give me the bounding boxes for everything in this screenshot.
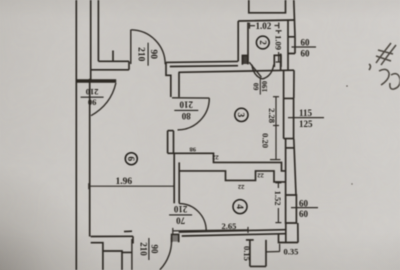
wall room2 left inner <box>247 23 249 65</box>
svg-text:210: 210 <box>173 204 187 214</box>
door D3 arc 70/210 <box>179 204 206 231</box>
window W3 room4 rect <box>286 195 297 223</box>
svg-text:2: 2 <box>258 40 268 45</box>
svg-text:1.96: 1.96 <box>116 177 133 187</box>
dim 2.65 room4 <box>173 230 248 231</box>
wall left inner vertical lower <box>89 79 91 237</box>
wall partition x98 <box>97 0 99 61</box>
svg-text:0.15: 0.15 <box>242 246 252 261</box>
wall right above window2 inner <box>283 70 285 98</box>
wall step right of room4 <box>279 234 299 243</box>
wall notch below window2 <box>286 147 294 149</box>
window W1 room2 rect <box>288 37 295 54</box>
wall top of room3 line2 <box>170 65 238 68</box>
svg-text:60: 60 <box>301 48 311 58</box>
door D6 entry arc <box>91 83 116 116</box>
svg-text:1.02: 1.02 <box>256 21 272 31</box>
dim 2.28 text <box>267 108 277 123</box>
svg-text:80: 80 <box>181 111 191 121</box>
wall room3 left lower inner <box>173 131 175 154</box>
svg-text:6: 6 <box>125 156 135 161</box>
handwriting No 20 <box>369 43 400 89</box>
wall room2 left outer <box>237 21 239 61</box>
door D2 label 80/210 flipped <box>174 100 198 121</box>
svg-text:125: 125 <box>299 119 313 129</box>
svg-text:210: 210 <box>136 47 146 62</box>
window W2 rect <box>284 98 294 138</box>
paper speck 1 <box>346 85 348 87</box>
svg-text:70: 70 <box>176 215 186 225</box>
dim room2 1.09 vertical <box>278 31 280 34</box>
dim 1.96 room6 <box>89 185 174 187</box>
window W1 label 60/60 <box>292 46 317 48</box>
svg-text:60: 60 <box>299 209 309 219</box>
room label 3 circled <box>235 108 248 121</box>
svg-text:90: 90 <box>148 49 158 59</box>
door D2 leaf 80/210 <box>172 97 209 99</box>
svg-text:22: 22 <box>238 183 245 190</box>
dim 0.20 text <box>261 133 271 148</box>
wall left inner vertical upper <box>90 0 92 81</box>
svg-text:60: 60 <box>299 198 309 208</box>
wall right outer top <box>294 0 295 37</box>
door D4 arc <box>160 238 172 270</box>
dim 0.35 <box>266 251 280 253</box>
wall below window1 inner <box>287 54 289 71</box>
door D2 arc <box>178 98 210 130</box>
svg-text:3: 3 <box>235 113 245 118</box>
wall room4 south bottom line <box>182 234 286 236</box>
wall room3 left outer <box>166 62 171 97</box>
svg-text:210: 210 <box>86 87 99 97</box>
small dim 22 flipped a <box>212 153 219 160</box>
wall top of room3 line3 long <box>179 70 295 72</box>
wall jog below window1 <box>280 54 282 71</box>
wall zigzag Q room4 north <box>179 171 285 182</box>
wall room6 south cap <box>132 236 134 243</box>
svg-text:4: 4 <box>234 204 244 209</box>
svg-text:22: 22 <box>212 153 219 160</box>
wall stub left of room2 door <box>242 55 248 64</box>
door D4 leaf vertical <box>131 239 133 270</box>
dim room2 1.02 <box>250 25 256 27</box>
wall room2 top <box>238 20 294 21</box>
wall right outer above window3 <box>294 139 296 195</box>
door D3 label 70/210 flipped <box>169 204 192 225</box>
wall door1 jamb cap <box>128 61 130 70</box>
door D5 label 60/190 rotated <box>251 79 269 95</box>
svg-text:90: 90 <box>150 245 160 255</box>
small dim 22 flipped c <box>238 183 245 190</box>
svg-text:98: 98 <box>189 146 196 153</box>
svg-text:115: 115 <box>299 108 313 118</box>
paper speck 2 <box>351 183 352 184</box>
dim 0.15 text <box>242 246 252 261</box>
wall stub right of room2 door <box>274 55 281 67</box>
small dim 98 flipped <box>189 146 196 153</box>
door D1 label 90/210 rotated <box>136 43 158 66</box>
door D1 leaf 90/210 top <box>130 30 132 65</box>
door D5 room2 double arcs <box>252 65 263 79</box>
door D6 label 90/210 flipped <box>81 87 104 108</box>
wall left outer vertical <box>75 0 77 270</box>
svg-text:22: 22 <box>257 171 264 178</box>
wall room3 left lower jamb <box>168 130 174 132</box>
wall right inner above window1 <box>287 20 289 37</box>
svg-text:2.28: 2.28 <box>267 108 277 123</box>
entry door wall band <box>76 79 116 83</box>
room label 4 circled <box>233 200 247 214</box>
shaft top rect <box>249 0 286 13</box>
wall right inner above window3 <box>285 139 287 195</box>
wall right above window2 outer <box>293 70 295 98</box>
svg-text:1.52: 1.52 <box>273 191 283 206</box>
wall room3 left lower outer <box>167 131 169 154</box>
svg-text:60: 60 <box>301 38 311 48</box>
svg-text:2.65: 2.65 <box>222 221 237 231</box>
svg-text:210: 210 <box>138 242 148 256</box>
room label 6 circled <box>125 153 137 165</box>
dim 1.52 vertical <box>277 183 279 188</box>
svg-text:1.09: 1.09 <box>273 35 283 50</box>
wall right outer below window3 <box>297 223 299 243</box>
step rect bottom with 0.15 <box>246 240 266 267</box>
door D5 diagonal leaf <box>249 62 261 77</box>
wall partition room6/room4 right line <box>178 162 180 203</box>
window W3 label 60/60 <box>291 207 318 209</box>
wall room6 south line1 <box>91 235 133 237</box>
wall partition room6/room4 left line <box>173 153 175 203</box>
wall jamb block below D3 <box>172 234 179 242</box>
wall jamb x113 <box>112 51 114 62</box>
door D4 label 90/210 rotated <box>138 238 159 260</box>
svg-text:90: 90 <box>88 97 97 107</box>
svg-text:190: 190 <box>260 81 269 93</box>
wall top corridor line2 <box>91 69 129 71</box>
window W2 label 115/125 <box>288 117 324 119</box>
wall room3 left inner <box>178 72 180 97</box>
wall room6 south line2 steps <box>91 243 132 270</box>
wall top corridor line1 <box>98 60 129 62</box>
threshold line <box>124 230 132 232</box>
door D1 arc <box>131 30 165 65</box>
svg-text:210: 210 <box>179 100 193 110</box>
dim 2.28 vertical line <box>275 97 277 160</box>
small dim 22 flipped b <box>257 171 264 178</box>
svg-text:0.20: 0.20 <box>261 133 271 148</box>
wall room4 south top line <box>179 230 286 232</box>
room label 2 circled <box>256 36 269 49</box>
wall zigzag P room3 south <box>168 153 286 171</box>
wall right inner below window3 <box>285 223 287 243</box>
wall top of room3 line1 <box>166 61 238 62</box>
svg-text:0.35: 0.35 <box>284 247 299 257</box>
